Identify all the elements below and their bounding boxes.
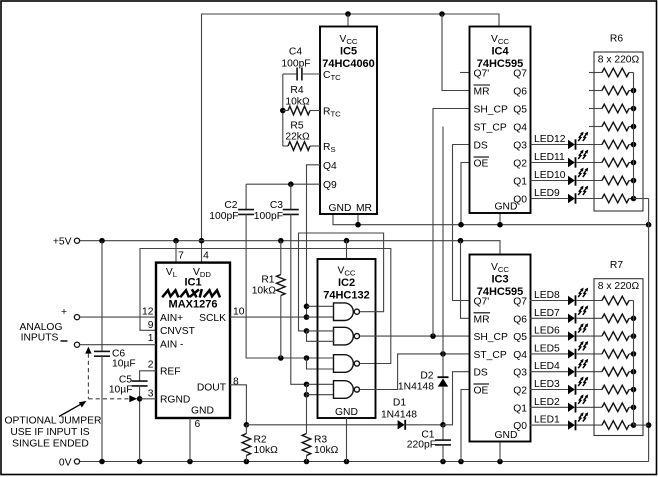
svg-text:100pF: 100pF bbox=[281, 59, 310, 70]
svg-text:0V: 0V bbox=[59, 458, 72, 469]
wire IC4 Q7apos stub bbox=[460, 72, 470, 74]
svg-text:OE: OE bbox=[474, 159, 489, 170]
capacitor C6 bbox=[94, 241, 136, 462]
svg-text:GND: GND bbox=[329, 203, 352, 214]
svg-text:LED7: LED7 bbox=[534, 308, 560, 319]
svg-text:R5: R5 bbox=[290, 121, 303, 132]
svg-text:LED4: LED4 bbox=[534, 361, 560, 372]
wire IC3 OE to 0V bbox=[461, 390, 470, 462]
svg-text:Q6: Q6 bbox=[513, 314, 527, 325]
svg-text:REF: REF bbox=[160, 367, 181, 378]
svg-text:R1: R1 bbox=[261, 275, 274, 286]
wire gate1 out to gate2 in bbox=[299, 233, 384, 341]
LED LED12 bbox=[531, 132, 603, 150]
wire DOUT net bbox=[230, 385, 398, 428]
gate IC2-A NAND bbox=[334, 303, 360, 321]
svg-text:IC3: IC3 bbox=[491, 274, 508, 286]
wire Q4 to SCLK/gate1 bbox=[304, 165, 335, 320]
LED LED4 bbox=[530, 359, 603, 377]
svg-text:CNVST: CNVST bbox=[160, 326, 196, 337]
diode D2 1N4148 bbox=[398, 354, 449, 425]
svg-text:9: 9 bbox=[148, 320, 154, 331]
resistor R5 bbox=[283, 121, 320, 151]
svg-text:Q7': Q7' bbox=[474, 297, 490, 308]
svg-text:D1: D1 bbox=[393, 398, 406, 409]
svg-text:ANALOG: ANALOG bbox=[20, 322, 63, 333]
resistor R3 bbox=[302, 434, 338, 462]
wire IC3 GND to 0V bbox=[499, 442, 501, 462]
wire +5V rail bbox=[80, 238, 501, 263]
svg-text:8 x 220Ω: 8 x 220Ω bbox=[598, 55, 640, 66]
svg-text:GND: GND bbox=[495, 202, 518, 213]
svg-text:D2: D2 bbox=[420, 371, 433, 382]
svg-text:IC2: IC2 bbox=[338, 277, 355, 289]
svg-text:OPTIONAL JUMPER: OPTIONAL JUMPER bbox=[5, 416, 102, 427]
capacitor C3 bbox=[254, 184, 335, 433]
svg-text:8 x 220Ω: 8 x 220Ω bbox=[598, 281, 640, 292]
svg-text:DS: DS bbox=[474, 368, 488, 379]
svg-text:GND: GND bbox=[335, 407, 358, 418]
svg-text:AIN+: AIN+ bbox=[160, 313, 183, 324]
wire SCLK (IC1 pin10 to gate1) bbox=[230, 316, 307, 318]
wire callout arrow bbox=[59, 401, 87, 417]
svg-text:Q4: Q4 bbox=[323, 161, 337, 172]
resistor R4 bbox=[283, 85, 320, 115]
node analog input - terminal bbox=[61, 341, 80, 347]
IC IC1 MAX1276 ADC bbox=[142, 251, 245, 431]
LED LED9 bbox=[531, 186, 603, 204]
capacitor C2 bbox=[209, 184, 334, 369]
svg-text:Q1: Q1 bbox=[513, 177, 527, 188]
wire IC1 GND to 0V bbox=[189, 418, 191, 462]
svg-text:IC4: IC4 bbox=[491, 46, 509, 58]
wire IC3 Q7apos to IC4 DS bbox=[453, 145, 470, 301]
svg-text:SINGLE ENDED: SINGLE ENDED bbox=[12, 439, 89, 450]
node analog input + terminal bbox=[61, 307, 80, 320]
svg-text:LED1: LED1 bbox=[534, 415, 560, 426]
wire ST_CP net bbox=[360, 127, 469, 390]
svg-text:IC1: IC1 bbox=[184, 277, 201, 289]
svg-text:Q6: Q6 bbox=[513, 87, 527, 98]
svg-text:+5V: +5V bbox=[53, 237, 72, 248]
svg-text:22kΩ: 22kΩ bbox=[285, 132, 310, 143]
svg-text:Q7: Q7 bbox=[513, 297, 527, 308]
wire AIN+ input bbox=[80, 316, 157, 318]
svg-text:Q9: Q9 bbox=[323, 180, 337, 191]
svg-text:LED10: LED10 bbox=[534, 170, 566, 181]
LED LED8 bbox=[530, 288, 603, 306]
svg-text:1: 1 bbox=[148, 333, 154, 344]
svg-text:SCLK: SCLK bbox=[199, 313, 226, 324]
svg-text:Q4: Q4 bbox=[513, 123, 527, 134]
gate IC2-B NAND bbox=[334, 327, 360, 345]
svg-text:Q7: Q7 bbox=[513, 69, 527, 80]
IC IC2 74HC132 quad NAND bbox=[318, 259, 376, 418]
svg-text:LED5: LED5 bbox=[534, 343, 560, 354]
resistor network R7 8x220 bbox=[594, 260, 649, 435]
svg-text:IC5: IC5 bbox=[340, 46, 357, 58]
LED LED2 bbox=[530, 394, 603, 412]
svg-text:10: 10 bbox=[233, 307, 245, 318]
svg-text:3: 3 bbox=[148, 389, 154, 400]
svg-text:SH_CP: SH_CP bbox=[474, 105, 508, 116]
label analog inputs bbox=[20, 322, 63, 344]
svg-text:SH_CP: SH_CP bbox=[474, 332, 508, 343]
svg-text:INPUTS: INPUTS bbox=[21, 333, 59, 344]
wire optional jumper (dashed) bbox=[85, 347, 137, 403]
svg-text:1N4148: 1N4148 bbox=[398, 382, 434, 393]
wire AIN- input bbox=[80, 344, 157, 346]
wire Q9 net bbox=[246, 181, 320, 187]
svg-text:R3: R3 bbox=[314, 435, 327, 446]
svg-text:2: 2 bbox=[148, 360, 154, 371]
wire oscillator node bbox=[280, 74, 286, 146]
wire IC4 MR to VCC bbox=[442, 14, 470, 91]
svg-text:Q2: Q2 bbox=[513, 159, 527, 170]
IC IC5 74HC4060 oscillator-divider bbox=[320, 27, 377, 215]
svg-text:GND: GND bbox=[191, 406, 214, 417]
svg-text:Q5: Q5 bbox=[513, 332, 527, 343]
capacitor C5 bbox=[109, 371, 156, 462]
svg-text:LED12: LED12 bbox=[534, 134, 566, 145]
svg-text:LED8: LED8 bbox=[534, 290, 560, 301]
svg-text:100pF: 100pF bbox=[254, 211, 283, 222]
svg-text:10µF: 10µF bbox=[112, 359, 136, 370]
svg-text:Q1: Q1 bbox=[513, 403, 527, 414]
svg-text:1N4148: 1N4148 bbox=[381, 410, 417, 421]
svg-text:10µF: 10µF bbox=[109, 385, 133, 396]
gate IC2-D NAND bbox=[334, 381, 360, 399]
svg-text:220pF: 220pF bbox=[407, 440, 436, 451]
label optional jumper note bbox=[5, 416, 102, 450]
svg-text:GND: GND bbox=[495, 430, 518, 441]
svg-text:R7: R7 bbox=[610, 260, 623, 271]
svg-text:LED2: LED2 bbox=[534, 397, 560, 408]
svg-text:Q4: Q4 bbox=[513, 350, 527, 361]
LED LED11 bbox=[531, 150, 603, 168]
IC IC3 74HC595 shift register bbox=[470, 255, 531, 442]
svg-text:C2: C2 bbox=[224, 200, 237, 211]
LED LED3 bbox=[530, 377, 603, 395]
wire IC3 MR to +5V bbox=[461, 241, 470, 319]
wire GND rail (IC5 GND / IC5 MR / IC4 OE / IC4 GND) bbox=[333, 163, 651, 228]
svg-text:Q5: Q5 bbox=[513, 105, 527, 116]
svg-text:MR: MR bbox=[356, 203, 372, 214]
gate IC2-C NAND bbox=[334, 355, 360, 373]
resistor network R6 8x220 bbox=[589, 34, 649, 212]
wire VCC top rail (IC1 VDD to IC5/IC4 VCC) bbox=[199, 11, 499, 262]
svg-text:R2: R2 bbox=[254, 435, 267, 446]
wire RGND bbox=[140, 398, 156, 400]
svg-text:+: + bbox=[61, 307, 67, 318]
svg-text:Q2: Q2 bbox=[513, 386, 527, 397]
svg-text:DOUT: DOUT bbox=[197, 383, 227, 394]
svg-text:100pF: 100pF bbox=[209, 211, 238, 222]
wire SH_CP net bbox=[360, 109, 469, 339]
svg-text:LED11: LED11 bbox=[534, 152, 565, 163]
svg-text:C4: C4 bbox=[289, 47, 302, 58]
LED LED10 bbox=[531, 168, 603, 186]
svg-text:C3: C3 bbox=[270, 200, 283, 211]
svg-text:8: 8 bbox=[233, 377, 239, 388]
resistor R1 bbox=[252, 241, 285, 358]
svg-text:ST_CP: ST_CP bbox=[474, 123, 507, 134]
svg-text:12: 12 bbox=[142, 307, 154, 318]
svg-text:Q7': Q7' bbox=[474, 69, 490, 80]
capacitor C4 bbox=[281, 47, 320, 81]
svg-text:LED9: LED9 bbox=[534, 188, 560, 199]
svg-text:R4: R4 bbox=[290, 85, 303, 96]
svg-text:MR: MR bbox=[474, 314, 490, 325]
svg-text:LED6: LED6 bbox=[534, 326, 560, 337]
LED LED7 bbox=[530, 305, 603, 323]
svg-text:Q3: Q3 bbox=[513, 141, 527, 152]
svg-text:74HC132: 74HC132 bbox=[323, 290, 369, 302]
diode D1 1N4148 bbox=[381, 398, 446, 430]
wire 0V rail bbox=[80, 459, 649, 465]
svg-text:6: 6 bbox=[195, 419, 201, 430]
svg-text:4: 4 bbox=[203, 251, 209, 262]
svg-text:USE IF INPUT IS: USE IF INPUT IS bbox=[10, 427, 89, 438]
capacitor C1 bbox=[407, 425, 451, 462]
wire ground riser right edge bbox=[646, 199, 652, 462]
svg-text:10kΩ: 10kΩ bbox=[285, 97, 310, 108]
svg-text:RGND: RGND bbox=[160, 395, 190, 406]
svg-text:Q3: Q3 bbox=[513, 368, 527, 379]
svg-text:MR: MR bbox=[474, 87, 490, 98]
svg-text:AIN -: AIN - bbox=[160, 340, 183, 351]
svg-text:10kΩ: 10kΩ bbox=[254, 445, 279, 456]
svg-text:LED3: LED3 bbox=[534, 379, 560, 390]
wire D-junction to IC3 DS bbox=[443, 372, 470, 425]
wire CNVST net (IC2 gate3 out to IC1 CNVST) bbox=[140, 249, 391, 364]
svg-text:R6: R6 bbox=[610, 34, 623, 45]
IC IC4 74HC595 shift register bbox=[470, 27, 531, 214]
wire IC2 GND to 0V bbox=[346, 418, 348, 462]
LED LED6 bbox=[530, 323, 603, 341]
svg-text:74HC4060: 74HC4060 bbox=[322, 58, 375, 70]
LED LED1 bbox=[530, 412, 603, 430]
node +5V terminal bbox=[53, 237, 80, 248]
svg-text:MAX1276: MAX1276 bbox=[169, 299, 218, 311]
svg-text:ST_CP: ST_CP bbox=[474, 350, 507, 361]
svg-text:OE: OE bbox=[474, 386, 489, 397]
svg-text:10kΩ: 10kΩ bbox=[314, 445, 339, 456]
svg-text:7: 7 bbox=[178, 251, 184, 262]
svg-text:10kΩ: 10kΩ bbox=[252, 286, 277, 297]
resistor R2 bbox=[242, 425, 278, 462]
node 0V terminal bbox=[59, 458, 80, 469]
wire IC2 VCC stub bbox=[346, 241, 348, 259]
svg-text:DS: DS bbox=[474, 141, 488, 152]
LED LED5 bbox=[530, 341, 603, 359]
